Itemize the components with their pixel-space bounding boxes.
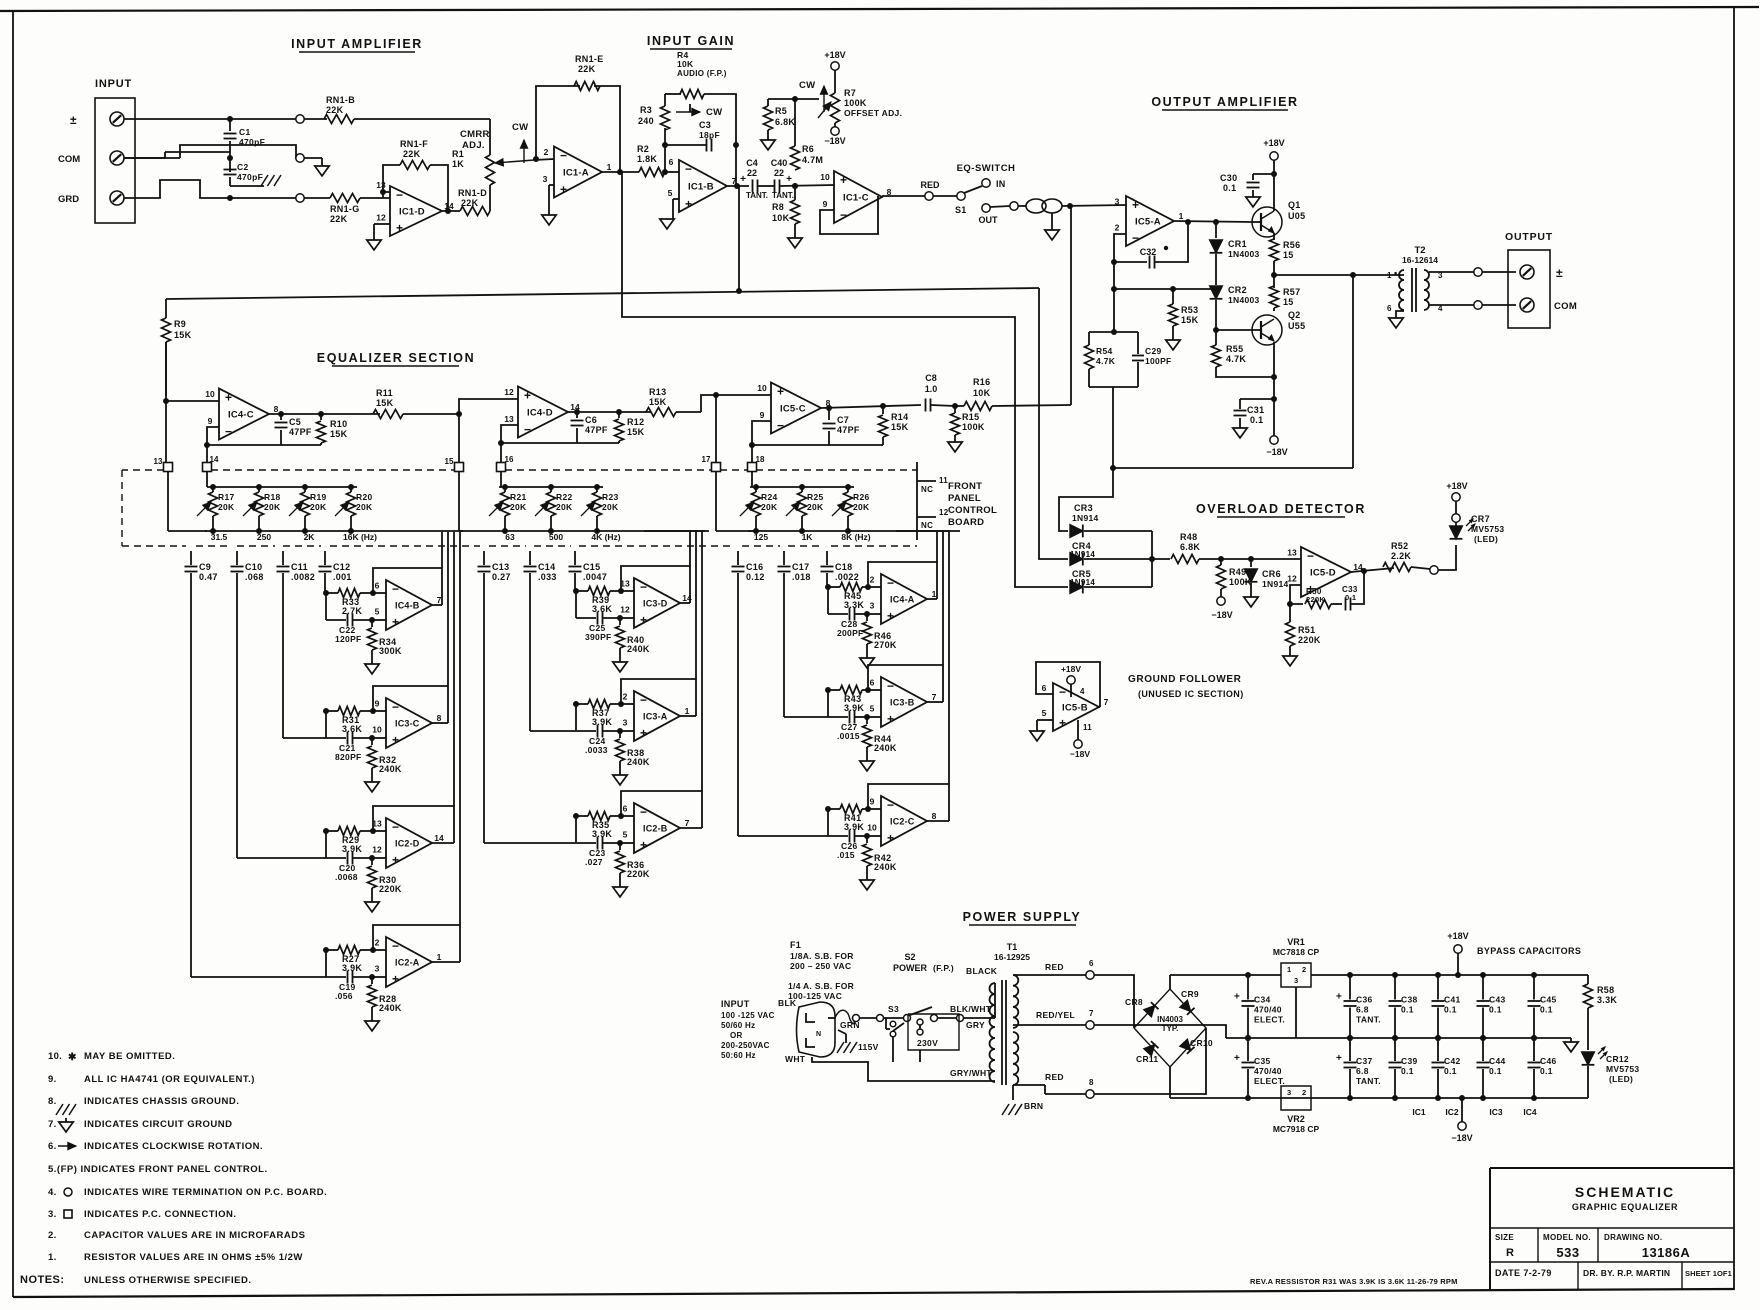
svg-text:2.2K: 2.2K xyxy=(1391,551,1411,561)
svg-text:R1: R1 xyxy=(452,149,464,159)
svg-text:47PF: 47PF xyxy=(289,427,312,437)
svg-text:3: 3 xyxy=(1115,197,1120,207)
diode CR1 xyxy=(1215,222,1217,238)
svg-text:BLACK: BLACK xyxy=(966,966,998,976)
svg-text:+: + xyxy=(560,183,567,197)
potentiometer R4 xyxy=(680,90,704,99)
circuit ground IC2-D xyxy=(371,888,373,902)
svg-text:12: 12 xyxy=(376,213,386,223)
node IC3-A plus xyxy=(617,728,623,734)
wire g1 minus xyxy=(207,427,219,462)
wire IC2-A minus in xyxy=(373,949,386,951)
svg-text:15K: 15K xyxy=(376,398,394,408)
svg-text:15K: 15K xyxy=(174,330,192,340)
svg-text:C8: C8 xyxy=(925,373,937,383)
svg-text:.0082: .0082 xyxy=(291,572,315,582)
svg-text:AUDIO (F.P.): AUDIO (F.P.) xyxy=(677,69,727,78)
svg-text:R22: R22 xyxy=(556,492,573,502)
svg-text:+: + xyxy=(392,615,399,629)
+18V terminal OD xyxy=(1452,493,1460,501)
svg-text:22K: 22K xyxy=(461,198,479,208)
resistor R3 xyxy=(661,106,670,130)
node IC3-B left xyxy=(825,687,831,693)
svg-text:F1: F1 xyxy=(790,940,801,950)
terminal OUT xyxy=(982,204,990,212)
svg-text:INDICATES CHASSIS GROUND.: INDICATES CHASSIS GROUND. xyxy=(84,1096,239,1107)
svg-text:+: + xyxy=(640,726,647,740)
node IC4-A plus xyxy=(864,611,870,617)
wire L3 xyxy=(1113,467,1353,469)
node IC3-B minus xyxy=(865,687,871,693)
svg-text:470pF: 470pF xyxy=(237,172,263,182)
wire IC3-B up xyxy=(942,532,944,665)
transformer T2 primary xyxy=(1399,270,1404,310)
svg-text:220K: 220K xyxy=(1298,635,1321,645)
wire R5 top xyxy=(768,98,795,100)
wire pin3 xyxy=(549,184,554,186)
title date col xyxy=(1577,1262,1579,1289)
svg-text:2: 2 xyxy=(1302,1088,1306,1097)
resistor R54 xyxy=(1088,332,1090,345)
svg-text:MAY BE OMITTED.: MAY BE OMITTED. xyxy=(84,1051,175,1062)
board right edge xyxy=(916,462,918,540)
capacitor C1 xyxy=(224,133,237,135)
bridge diode CR9 xyxy=(1180,1000,1191,1011)
svg-text:.0033: .0033 xyxy=(585,745,608,755)
svg-text:IC5-D: IC5-D xyxy=(1310,568,1336,579)
svg-text:8: 8 xyxy=(1089,1078,1094,1087)
svg-text:C17: C17 xyxy=(792,562,809,572)
wire pin12 xyxy=(374,223,390,225)
wire R3 top xyxy=(664,94,666,106)
node mid rail left xyxy=(1111,286,1117,292)
svg-text:CW: CW xyxy=(706,107,722,118)
node IC2-D minus xyxy=(370,828,376,834)
svg-text:GRY/WHT: GRY/WHT xyxy=(950,1068,992,1078)
resistor R10 xyxy=(320,414,322,420)
resistor RN1-E xyxy=(574,82,600,91)
svg-text:9: 9 xyxy=(208,416,213,426)
svg-text:WHT: WHT xyxy=(785,1054,806,1064)
capacitor C45 xyxy=(1533,975,1535,1000)
capacitor C43 xyxy=(1482,975,1484,1000)
resistor R51 xyxy=(1289,604,1291,622)
svg-text:1N914: 1N914 xyxy=(1262,579,1289,589)
svg-text:RED/YEL: RED/YEL xyxy=(1036,1010,1075,1020)
wire IC2-D up xyxy=(453,532,455,806)
svg-text:R23: R23 xyxy=(602,492,619,502)
svg-text:GROUND FOLLOWER: GROUND FOLLOWER xyxy=(1128,674,1242,685)
svg-text:47PF: 47PF xyxy=(585,425,608,435)
node R49 top xyxy=(1218,556,1224,562)
VR1 box xyxy=(1281,963,1311,987)
svg-text:IC3-D: IC3-D xyxy=(643,599,668,609)
svg-text:15: 15 xyxy=(445,457,454,466)
svg-text:8: 8 xyxy=(932,811,937,821)
potentiometer R21 xyxy=(504,487,506,492)
resistor R35 xyxy=(576,815,588,817)
chassis ground C2 xyxy=(229,177,231,186)
capacitor C19 xyxy=(326,976,346,978)
svg-text:1: 1 xyxy=(607,162,612,172)
svg-text:IC1-A: IC1-A xyxy=(563,168,589,179)
svg-text:N: N xyxy=(816,1031,821,1038)
wire R13 to g3 xyxy=(676,411,701,413)
svg-text:220K: 220K xyxy=(1306,595,1325,604)
svg-text:−18V: −18V xyxy=(1070,749,1090,759)
svg-text:1: 1 xyxy=(437,952,442,962)
wire R2 to IC1-B xyxy=(665,171,679,173)
wire CR3 feed xyxy=(1059,468,1113,531)
wire R5 gnd xyxy=(767,130,769,140)
svg-text:R58: R58 xyxy=(1597,985,1614,995)
capacitor C39 xyxy=(1394,1038,1396,1061)
svg-text:−: − xyxy=(524,423,531,437)
wire IC1-B out xyxy=(727,185,749,187)
wire GRD route xyxy=(124,180,230,198)
svg-text:−: − xyxy=(640,580,647,594)
svg-text:13: 13 xyxy=(154,457,163,466)
node C32 left xyxy=(1111,259,1117,265)
svg-text:IC2-C: IC2-C xyxy=(890,817,915,827)
potentiometer R26 xyxy=(847,487,849,492)
resistor R40 xyxy=(619,618,621,625)
node g1 plus xyxy=(163,398,169,404)
svg-text:C5: C5 xyxy=(289,417,301,427)
pot bus3 ext xyxy=(896,530,950,532)
wire IC3-A plus in xyxy=(620,730,634,732)
svg-text:8: 8 xyxy=(437,713,442,723)
dashed board left xyxy=(121,470,123,546)
node g1 out a xyxy=(278,411,284,417)
feedback RN1-E wire xyxy=(536,86,580,159)
node GRD xyxy=(227,195,233,201)
wire sq17 drop xyxy=(715,395,717,462)
node IC4-B minus xyxy=(370,590,376,596)
node pin6 xyxy=(662,169,668,175)
svg-text:50:60 Hz: 50:60 Hz xyxy=(721,1051,756,1060)
svg-text:1N4003: 1N4003 xyxy=(1228,249,1260,259)
svg-text:R: R xyxy=(1506,1247,1514,1259)
capacitor C35 xyxy=(1247,1038,1249,1061)
wire WHT to T1 xyxy=(812,1057,995,1081)
node IC4-A minus xyxy=(865,584,871,590)
wire L3 vert xyxy=(1352,275,1354,468)
wire R55 down xyxy=(1216,342,1274,377)
circuit ground R51 xyxy=(1289,646,1291,656)
svg-text:R26: R26 xyxy=(853,492,870,502)
capacitor C12 xyxy=(324,551,326,565)
svg-text:1/4 A. S.B. FOR: 1/4 A. S.B. FOR xyxy=(788,981,854,991)
wire IC5-A out xyxy=(1174,221,1253,222)
svg-text:7: 7 xyxy=(1089,1009,1094,1018)
wire IC5-B plus xyxy=(1037,719,1053,721)
feedback box IC3-A xyxy=(621,679,696,716)
wire RN1-G to IC1-D xyxy=(360,197,390,199)
node pot bottom xyxy=(548,528,554,534)
wire sq15-bus2 xyxy=(458,471,460,531)
svg-text:10: 10 xyxy=(757,383,767,393)
feedback IC1-C xyxy=(820,196,878,234)
resistor R56 xyxy=(1270,239,1279,261)
terminal RED xyxy=(925,192,933,200)
pot top bus xyxy=(207,486,357,488)
svg-text:C30: C30 xyxy=(1220,173,1237,183)
resistor R55 xyxy=(1212,345,1221,367)
svg-text:2: 2 xyxy=(544,147,549,157)
wire IC1-A out xyxy=(602,171,639,173)
node L3 right xyxy=(1350,272,1356,278)
svg-text:3: 3 xyxy=(623,718,628,728)
node g3 fb xyxy=(749,442,755,448)
svg-text:R5: R5 xyxy=(775,106,787,116)
svg-text:DRAWING NO.: DRAWING NO. xyxy=(1604,1233,1662,1242)
svg-text:100K: 100K xyxy=(844,98,867,108)
terminal R52 xyxy=(1430,566,1438,574)
capacitor C10 xyxy=(236,551,238,565)
title block col1 xyxy=(1537,1228,1539,1262)
node pot R23 top xyxy=(594,484,600,490)
wire C31 gnd xyxy=(1239,418,1241,428)
svg-text:−: − xyxy=(1132,231,1139,245)
resistor R50 xyxy=(1305,600,1331,609)
resistor R37 xyxy=(576,703,588,705)
svg-text:R8: R8 xyxy=(772,202,784,212)
svg-text:POWER SUPPLY: POWER SUPPLY xyxy=(963,910,1082,924)
svg-text:1N914: 1N914 xyxy=(1070,550,1095,559)
wire IC1-B out drop xyxy=(738,186,740,291)
svg-text:12: 12 xyxy=(620,605,630,615)
wire C3 left xyxy=(665,144,706,146)
svg-text:7.: 7. xyxy=(48,1119,57,1130)
node IC4-B plus xyxy=(369,617,375,623)
op-amp IC3-C xyxy=(386,698,432,748)
node pot bottom xyxy=(256,528,262,534)
node base bus1 xyxy=(1213,219,1219,225)
node IC2-C plus xyxy=(864,833,870,839)
svg-text:+18V: +18V xyxy=(824,50,845,60)
svg-text:R57: R57 xyxy=(1283,287,1300,297)
wire R9 to pin10 xyxy=(166,400,219,402)
svg-text:−18V: −18V xyxy=(1211,610,1232,620)
wire IC3-C plus in xyxy=(372,737,386,739)
svg-text:CR2: CR2 xyxy=(1228,285,1247,295)
svg-text:RED: RED xyxy=(1045,1072,1064,1082)
svg-text:240K: 240K xyxy=(627,644,650,654)
wire IC5-D out xyxy=(1351,568,1394,572)
svg-text:7: 7 xyxy=(437,595,442,605)
node C3 left xyxy=(662,142,668,148)
svg-text:CW: CW xyxy=(512,122,528,133)
svg-text:.018: .018 xyxy=(792,572,811,582)
circuit ground IC1-B xyxy=(660,219,674,229)
wire to R48 xyxy=(1152,558,1170,560)
svg-text:R17: R17 xyxy=(218,492,235,502)
bridge wires xyxy=(1094,975,1134,1028)
resistor R16 xyxy=(964,402,992,411)
PS top rail xyxy=(1170,974,1281,976)
node Q2 base node xyxy=(1213,327,1219,333)
node pot bottom xyxy=(210,528,216,534)
capacitor C34 xyxy=(1247,975,1249,1000)
wire IC3-C out xyxy=(432,722,448,724)
node IC4-A left xyxy=(825,584,831,590)
svg-text:MV5753: MV5753 xyxy=(1471,524,1504,534)
svg-text:−: − xyxy=(777,419,784,433)
svg-text:TANT.: TANT. xyxy=(772,191,794,200)
feedback bus g2 xyxy=(501,442,619,444)
svg-text:C10: C10 xyxy=(245,562,262,572)
node IC2-B minus xyxy=(618,813,624,819)
wire IC3-C up xyxy=(447,532,449,686)
wire R9 down xyxy=(165,342,167,396)
wire CR4 feed xyxy=(1039,288,1068,559)
wire IC2-A plus in xyxy=(372,976,386,978)
op-amp IC4-B xyxy=(386,580,432,630)
node IC1-D out xyxy=(445,208,451,214)
svg-text:20K: 20K xyxy=(602,502,619,512)
svg-text:4: 4 xyxy=(1080,687,1085,696)
svg-text:14: 14 xyxy=(210,455,219,464)
svg-text:C16: C16 xyxy=(746,562,763,572)
node IC3-D left xyxy=(573,588,579,594)
pc square 17 xyxy=(712,463,721,472)
svg-text:−: − xyxy=(685,162,692,176)
svg-text:3: 3 xyxy=(870,601,875,611)
wire IC4-B minus in xyxy=(373,592,386,594)
node IC2-D left xyxy=(323,828,329,834)
node C31 tap xyxy=(1271,396,1277,402)
sheet border left xyxy=(12,11,14,1297)
potentiometer R18 xyxy=(258,487,260,492)
svg-text:.027: .027 xyxy=(585,857,603,867)
svg-text:C14: C14 xyxy=(538,562,555,572)
svg-text:−: − xyxy=(840,208,847,222)
svg-text:3.3K: 3.3K xyxy=(1597,995,1617,1005)
svg-text:C35: C35 xyxy=(1254,1056,1271,1066)
svg-text:16-12925: 16-12925 xyxy=(994,952,1030,962)
svg-text:OFFSET ADJ.: OFFSET ADJ. xyxy=(844,108,902,118)
wire g3 minus xyxy=(752,421,771,462)
svg-text:20K: 20K xyxy=(310,502,327,512)
R7 top terminal xyxy=(834,70,836,93)
svg-text:+: + xyxy=(392,853,399,867)
svg-text:390PF: 390PF xyxy=(585,632,612,642)
svg-text:20K: 20K xyxy=(218,502,235,512)
node pot bottom xyxy=(502,528,508,534)
svg-text:C2: C2 xyxy=(237,162,248,172)
svg-text:.068: .068 xyxy=(245,572,264,582)
svg-text:7: 7 xyxy=(685,818,690,828)
PS mid rail xyxy=(1094,1025,1226,1038)
node Q2 emit bottom xyxy=(1271,374,1277,380)
node g2 plus xyxy=(456,411,462,417)
wire T2 6 gnd xyxy=(1396,311,1404,318)
svg-text:4.7K: 4.7K xyxy=(1226,354,1246,364)
svg-text:CMRR: CMRR xyxy=(460,129,490,140)
node R5 top wire xyxy=(792,96,798,102)
screw out + xyxy=(1520,265,1534,279)
svg-text:3.: 3. xyxy=(48,1209,57,1220)
svg-text:120PF: 120PF xyxy=(335,634,362,644)
resistor R12 xyxy=(618,412,620,418)
svg-text:RN1-B: RN1-B xyxy=(326,95,355,105)
circuit ground IC4-B xyxy=(371,650,373,664)
pot top bus drop xyxy=(206,471,208,487)
svg-text:16K (Hz): 16K (Hz) xyxy=(343,532,377,542)
svg-text:PANEL: PANEL xyxy=(948,493,981,504)
svg-text:C45: C45 xyxy=(1540,995,1557,1005)
svg-text:−18V: −18V xyxy=(1266,447,1287,457)
wire IC4-A up xyxy=(936,532,938,562)
pot bus to sq13 xyxy=(167,471,169,531)
wire C1-C2 xyxy=(229,119,231,131)
svg-text:−: − xyxy=(225,425,232,439)
svg-text:+: + xyxy=(1336,992,1342,1003)
op-amp IC1-C xyxy=(834,171,882,223)
capacitor C13 xyxy=(483,551,485,565)
wire IC3-A up xyxy=(695,532,697,679)
transformer T2 secondary xyxy=(1424,270,1429,310)
node IC2-D plus xyxy=(369,855,375,861)
svg-text:C12: C12 xyxy=(333,562,350,572)
svg-text:R12: R12 xyxy=(627,417,644,427)
svg-text:IC5-B: IC5-B xyxy=(1062,703,1088,714)
AC plug xyxy=(797,1002,836,1057)
feedback RN1-F wire xyxy=(383,165,400,192)
shielded cable xyxy=(990,206,1010,207)
svg-text:−: − xyxy=(1307,549,1314,563)
capacitor C44 xyxy=(1482,1038,1484,1061)
svg-text:CR10: CR10 xyxy=(1190,1038,1213,1048)
svg-text:13: 13 xyxy=(1287,548,1297,558)
svg-text:20K: 20K xyxy=(264,502,281,512)
wire C32 down xyxy=(1113,262,1115,332)
svg-text:500: 500 xyxy=(549,532,563,542)
svg-text:R53: R53 xyxy=(1181,305,1198,315)
svg-text:+: + xyxy=(740,174,746,185)
node IC1-B out xyxy=(734,183,740,189)
svg-text:12: 12 xyxy=(1287,574,1297,584)
capacitor C31 xyxy=(1234,410,1247,412)
svg-text:−: − xyxy=(887,576,894,590)
wire IC2-A out xyxy=(432,961,460,963)
circuit ground CR6 xyxy=(1250,583,1252,597)
svg-text:BYPASS CAPACITORS: BYPASS CAPACITORS xyxy=(1477,946,1581,956)
capacitor C9 xyxy=(190,551,192,565)
svg-text:4.7M: 4.7M xyxy=(802,155,823,165)
title block row1 xyxy=(1490,1227,1734,1229)
node pot R21 top xyxy=(502,484,508,490)
transistor Q2 xyxy=(1252,315,1282,345)
svg-text:8: 8 xyxy=(274,404,279,414)
screw terminal GRD xyxy=(110,191,124,205)
svg-text:4.: 4. xyxy=(48,1187,57,1198)
svg-text:IN4003: IN4003 xyxy=(1157,1015,1183,1024)
svg-text:100K: 100K xyxy=(962,422,985,432)
svg-text:R56: R56 xyxy=(1283,240,1300,250)
node IC2-B plus xyxy=(617,840,623,846)
resistor R28 xyxy=(371,977,373,984)
capacitor C24 xyxy=(576,730,596,732)
svg-text:22K: 22K xyxy=(330,214,348,224)
svg-text:22K: 22K xyxy=(578,64,596,74)
svg-text:+18V: +18V xyxy=(1263,138,1284,148)
svg-text:C44: C44 xyxy=(1489,1056,1506,1066)
diode CR6 xyxy=(1250,559,1252,567)
svg-text:2: 2 xyxy=(623,692,628,702)
svg-text:R2: R2 xyxy=(637,144,649,154)
